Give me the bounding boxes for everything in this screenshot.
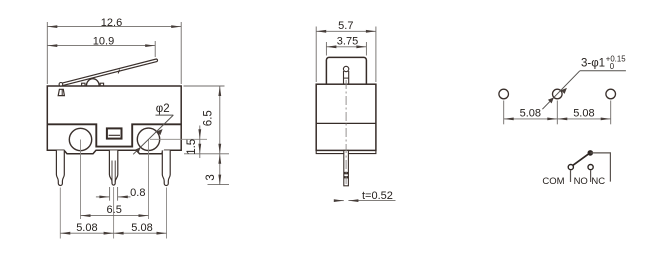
- extension line lever tip (10.9): [154, 41, 156, 57]
- lever hinge circle: [59, 83, 63, 87]
- dimension 5.08 left: [60, 232, 113, 234]
- left hole circle: [69, 128, 91, 150]
- end view plunger block: [326, 57, 366, 84]
- svg-text:10.9: 10.9: [93, 36, 114, 48]
- dimension 5.08 holes right: [557, 118, 610, 120]
- end view body: [316, 84, 376, 150]
- pin 2 inner tail lines: [112, 161, 115, 183]
- svg-text:5.08: 5.08: [76, 222, 97, 234]
- pin thickness band 1: [344, 172, 349, 174]
- extension pin tip right (3): [208, 184, 230, 186]
- svg-text:5.08: 5.08: [131, 222, 152, 234]
- centerline pin2: [113, 187, 115, 239]
- plunger dome: [86, 79, 99, 86]
- svg-text:1.5: 1.5: [186, 139, 198, 155]
- vertical centerline end view: [345, 80, 347, 184]
- svg-text:0: 0: [610, 62, 615, 71]
- terminal pin 1 (left): [56, 150, 64, 185]
- svg-text:NC: NC: [591, 176, 605, 187]
- dimension 5.7: [316, 30, 376, 32]
- centerline pin3: [166, 188, 168, 239]
- dimension 5.08 holes left: [504, 118, 558, 120]
- plunger rivet tick: [344, 77, 349, 79]
- dimension 10.9: [47, 45, 155, 47]
- extension lines 5.7: [316, 27, 376, 83]
- dimension 6.5 horizontal: [81, 215, 149, 217]
- common terminal marker inner line: [61, 89, 63, 95]
- dimension 3.75: [326, 46, 366, 48]
- mounting hole middle: [553, 89, 563, 99]
- phi-2 arrow upper: [157, 129, 163, 135]
- svg-text:3: 3: [205, 174, 217, 180]
- NO lead wire: [590, 170, 592, 182]
- 3-phi1 arrow upper: [561, 88, 567, 94]
- svg-text:5.7: 5.7: [338, 20, 353, 32]
- svg-text:NO: NO: [574, 176, 588, 187]
- svg-text:5.08: 5.08: [573, 108, 594, 120]
- svg-text:12.6: 12.6: [101, 17, 122, 29]
- pin thickness band 2: [344, 176, 349, 178]
- plunger rivet pin: [344, 71, 349, 84]
- svg-text:φ2: φ2: [156, 103, 170, 115]
- dimension 5.08 right: [114, 232, 167, 234]
- dimension 0.8: [96, 187, 131, 201]
- COM contact circle: [568, 165, 573, 170]
- extension lines holes: [504, 101, 611, 125]
- extension line left (12.6/10.9): [46, 22, 48, 84]
- mounting hole left: [499, 89, 509, 99]
- NC contact dot: [588, 150, 594, 156]
- dimension 3 vertical: [219, 154, 221, 185]
- body outline with bottom feet: [47, 86, 181, 154]
- end view step line: [316, 122, 376, 124]
- extension line right (12.6): [180, 22, 182, 84]
- extension body top right (6.5): [184, 85, 225, 87]
- mounting hole right: [606, 89, 616, 99]
- svg-text:3-φ1: 3-φ1: [581, 58, 605, 70]
- 3-phi1 leader underline: [580, 70, 626, 72]
- centerline right hole: [148, 139, 150, 219]
- NC wire: [590, 153, 610, 182]
- contact block inner line: [109, 134, 120, 136]
- right hole circle (phi-2): [137, 128, 159, 150]
- svg-text:3.75: 3.75: [337, 36, 358, 48]
- svg-text:0.8: 0.8: [130, 187, 145, 199]
- centerline pin1: [59, 188, 61, 239]
- terminal pin 2 (middle): [109, 150, 117, 185]
- dimension 1.5 vertical: [199, 126, 201, 159]
- dimension 12.6: [47, 26, 181, 28]
- dimension 6.5 vertical: [219, 86, 221, 154]
- svg-text:5.08: 5.08: [520, 108, 541, 120]
- center contact block: [107, 128, 122, 138]
- 3-phi1 arrow lower: [548, 97, 554, 103]
- 3-phi1 leader diagonal: [542, 71, 579, 109]
- plunger rivet head circle: [343, 66, 348, 71]
- extension foot bottom right (6.5/3/1.5): [184, 153, 229, 155]
- svg-text:COM: COM: [542, 176, 564, 187]
- svg-text:6.5: 6.5: [202, 110, 214, 126]
- terminal pin 3 (right): [162, 150, 170, 185]
- svg-text:t=0.52: t=0.52: [362, 190, 393, 202]
- end view bottom flange: [316, 150, 376, 153]
- centerline right hole horizontal: [150, 138, 207, 140]
- end view terminal pin: [344, 150, 349, 185]
- lever break mark: [118, 70, 119, 74]
- internal step and recess: [47, 124, 181, 146]
- COM lead wire: [570, 170, 572, 182]
- NO contact circle: [588, 165, 593, 170]
- phi-2 leader diagonal through hole: [133, 115, 173, 154]
- switch blade wire: [573, 154, 588, 165]
- lever arm: [59, 59, 157, 86]
- svg-text:6.5: 6.5: [107, 204, 122, 216]
- phi-2 leader underline: [156, 114, 174, 116]
- extension lines 3.75: [326, 42, 366, 56]
- dimension t=0.52: [334, 200, 396, 202]
- plunger left tab: [82, 83, 85, 86]
- common terminal marker: [58, 89, 64, 95]
- plunger right tab: [100, 83, 103, 86]
- centerline left hole: [80, 140, 82, 220]
- phi-2 arrow lower: [135, 147, 141, 153]
